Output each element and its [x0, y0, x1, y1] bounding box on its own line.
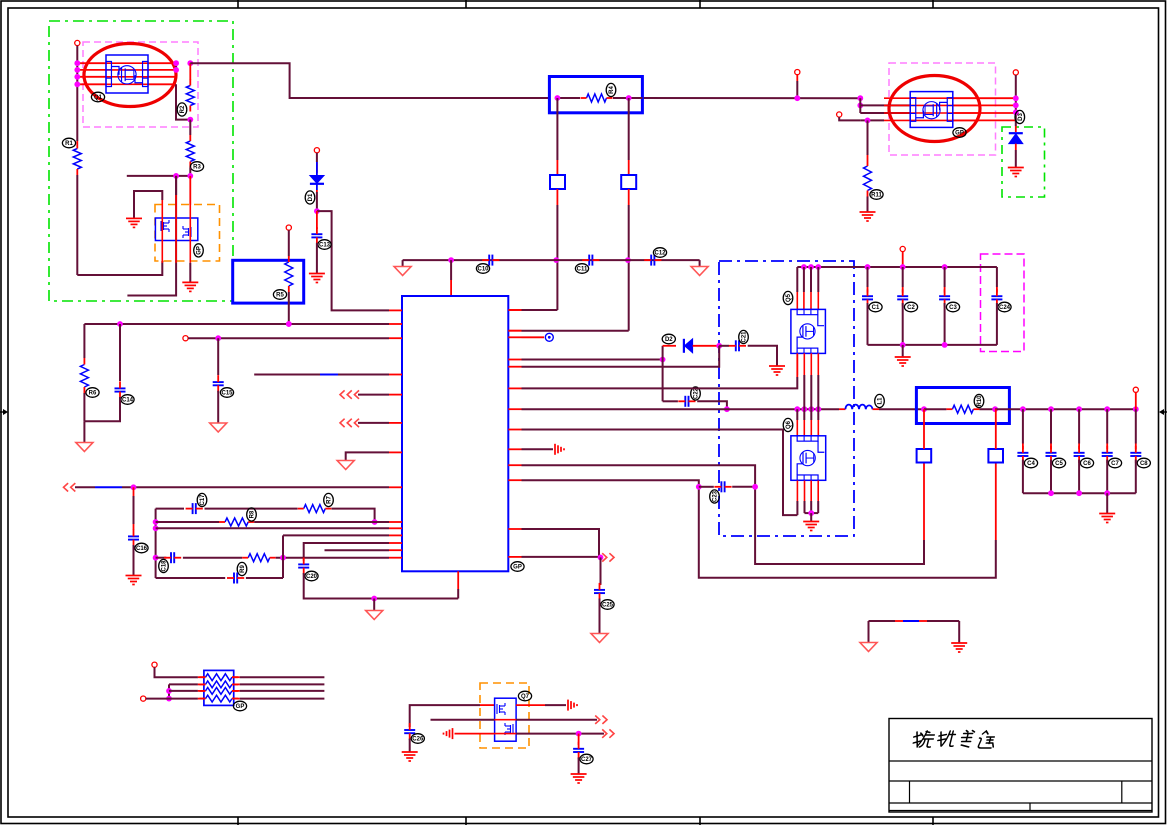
ground G13	[571, 774, 587, 783]
wire output rail dots	[1020, 406, 1026, 412]
IC left pin stubs	[389, 309, 402, 311]
node dots pack	[166, 688, 172, 694]
capacitor C25	[594, 590, 605, 593]
wire C27 branch	[578, 734, 580, 745]
capacitor C5	[1046, 453, 1057, 456]
wire row2 jog	[168, 684, 170, 698]
wire row480 loop	[522, 480, 996, 578]
wire L1 to R10 box	[879, 408, 924, 410]
wire RC row1	[156, 508, 184, 510]
wire row529 jog	[522, 529, 600, 557]
wire output caps bottoms	[1022, 460, 1024, 494]
svg-text:Q7: Q7	[521, 694, 530, 700]
resistor R3	[189, 120, 191, 135]
wire R6 down	[83, 393, 85, 421]
wire Q7 rowB	[431, 719, 495, 721]
wire R6 branch	[83, 324, 85, 358]
svg-text:R9: R9	[240, 565, 246, 573]
port circle P5	[183, 336, 188, 341]
node dot J1 caps row	[553, 257, 559, 263]
wire Q7 rowA	[410, 705, 480, 727]
ground G2	[182, 282, 198, 291]
resistor R11	[864, 166, 872, 191]
wire top rail y267	[797, 266, 997, 268]
wire IC VCC pin top	[450, 260, 452, 280]
capacitor C2	[897, 296, 908, 299]
port circle P7	[141, 696, 146, 701]
capacitor C21	[736, 340, 739, 351]
label C13	[318, 240, 331, 250]
node dot row487	[131, 484, 137, 490]
label RP1 GP	[233, 701, 246, 711]
resistor R4	[557, 97, 580, 99]
wire gnd rail to T6	[373, 599, 375, 611]
wire Q1 right tie	[175, 63, 177, 70]
svg-text:R3: R3	[193, 165, 201, 171]
svg-text:C3: C3	[949, 305, 957, 311]
label C15	[220, 388, 233, 398]
label R2	[177, 103, 187, 116]
svg-text:C11: C11	[577, 267, 588, 273]
diode D1	[310, 176, 324, 184]
wire RC row1 mid	[205, 508, 298, 510]
node dot J2 caps row	[625, 257, 631, 263]
wire net row374 (part blue)	[254, 374, 320, 376]
resistor R5	[288, 255, 290, 258]
wire Q7 rowA right to rgnd	[516, 704, 545, 706]
svg-text:C2: C2	[907, 305, 915, 311]
svg-text:D2: D2	[665, 337, 673, 343]
wire C16 to ground	[133, 545, 135, 575]
label C21	[739, 330, 749, 343]
capacitor C27	[573, 749, 584, 752]
wire row557 to offpage	[522, 556, 600, 558]
wire row394	[358, 394, 389, 396]
node dot row2 join	[372, 519, 378, 525]
wire D2 to box edge	[693, 345, 720, 347]
svg-text:L1: L1	[878, 397, 884, 405]
diode D2	[684, 339, 693, 353]
svg-text:C12: C12	[654, 251, 666, 257]
ground G1	[126, 218, 142, 227]
IC right pin stubs	[508, 309, 521, 311]
port circle P4	[286, 225, 291, 230]
svg-text:C21: C21	[742, 331, 748, 343]
label C1	[869, 302, 882, 312]
wire RC row4 mid	[183, 557, 242, 559]
wire R11 to ground	[867, 197, 869, 212]
wire Q1 left bus	[76, 46, 78, 141]
border center arrow right	[1162, 411, 1167, 413]
wire to ground T1	[83, 421, 85, 442]
label D3	[1015, 110, 1025, 123]
wire Q6 drain columns	[796, 409, 798, 420]
wire row4	[146, 698, 198, 700]
wire gate entry	[839, 117, 860, 120]
port circle P2 top	[795, 70, 800, 75]
wire cap row y260	[403, 259, 700, 261]
svg-text:Q1: Q1	[94, 95, 103, 101]
capacitor C1	[862, 296, 873, 299]
node dots TR right	[1013, 95, 1019, 101]
border zone ticks bottom	[238, 817, 933, 825]
green dashed group box top-left	[49, 21, 233, 301]
magenta dashed box around C24	[981, 254, 1025, 352]
wire R3 to row	[189, 168, 191, 177]
capacitor C24	[991, 296, 1002, 299]
ground G6	[769, 366, 785, 375]
wire Q7 rowC	[455, 733, 495, 735]
ground G10	[951, 643, 967, 652]
capacitor C17	[193, 503, 196, 514]
svg-text:C16: C16	[136, 546, 148, 552]
wire horizontal net stub y176	[127, 175, 191, 177]
ground T6	[366, 611, 383, 620]
ground T4	[394, 267, 411, 276]
wire RC bus vertical	[155, 509, 157, 578]
transistor Q4 package	[910, 92, 953, 128]
label C26	[411, 734, 424, 744]
wire row3	[169, 690, 198, 692]
wire jumper J3 bottom stub	[923, 463, 925, 541]
label C4	[1024, 458, 1037, 468]
wire net row338	[188, 337, 389, 339]
label C27	[580, 754, 593, 764]
wire port stub	[1135, 392, 1137, 409]
wire row359	[522, 359, 663, 361]
capacitor C10	[489, 255, 492, 266]
wire C15 branch	[217, 338, 219, 375]
label R5	[273, 290, 286, 300]
wire C20 down to gnd rail	[304, 573, 459, 599]
capacitor C26	[404, 730, 415, 733]
label C5	[1052, 458, 1065, 468]
label R6	[86, 388, 99, 398]
svg-text:C14: C14	[122, 398, 134, 404]
svg-text:C7: C7	[1111, 461, 1119, 467]
wire D2 row to C21	[719, 345, 729, 347]
capacitor C11	[589, 255, 592, 266]
wire port to row1	[155, 667, 198, 677]
svg-text:C24: C24	[999, 305, 1011, 311]
orange dashed box around Q7 bottom	[480, 683, 529, 748]
dual-FET Q7 symbol	[495, 698, 516, 741]
wire row429 to Q6 gate	[522, 430, 798, 516]
wire row543 to C20	[304, 543, 389, 558]
wire C15 down	[217, 391, 219, 423]
wire column J1	[556, 98, 558, 160]
label C8	[1137, 458, 1150, 468]
label C20	[305, 571, 318, 581]
wire row366	[522, 346, 720, 367]
wire Q5 gate column	[796, 353, 798, 375]
capacitor C13	[311, 234, 322, 237]
wire output bottom rail	[1023, 492, 1136, 494]
resistor R9	[248, 554, 270, 562]
wire rail to ground G8	[902, 345, 904, 357]
svg-text:R6: R6	[89, 391, 97, 397]
label Q4 GP	[953, 128, 966, 138]
wire RC bottom row	[156, 577, 226, 579]
wire Q2 source to ground	[189, 263, 191, 282]
title block frame	[889, 719, 1152, 813]
capacitor C20	[298, 564, 309, 567]
node dots output bottom rail	[1048, 490, 1054, 496]
svg-text:GP: GP	[197, 246, 203, 255]
label C12	[653, 248, 666, 258]
wire TR left tie	[859, 98, 861, 113]
node dot top rail	[794, 95, 800, 101]
pack pin stubs	[198, 676, 206, 678]
label D2	[662, 334, 675, 344]
node dot R10 left	[921, 406, 927, 412]
node dots Q1 right	[173, 60, 179, 66]
wire Q2 mid pin down	[127, 176, 176, 296]
label C2	[904, 302, 917, 312]
IC U1 body	[402, 296, 508, 571]
wire riser to D2	[662, 346, 664, 360]
wire right drop	[958, 621, 960, 643]
dual-FET Q2 symbol	[155, 218, 197, 241]
title block company text 緯創資通	[911, 731, 997, 749]
port circle P10	[837, 112, 842, 117]
label C22	[691, 387, 701, 400]
resistor R1 left	[76, 141, 78, 143]
node dot R5	[286, 321, 292, 327]
capacitor C3	[939, 296, 950, 299]
wire RC row2 to IC	[254, 521, 389, 523]
label L1	[875, 394, 885, 407]
node dot row409 join	[724, 406, 730, 412]
svg-text:C18: C18	[162, 560, 168, 572]
node dot R10 right	[992, 406, 998, 412]
ground T8	[860, 643, 877, 652]
ground G3	[309, 274, 325, 283]
diode D3 TVS	[1015, 126, 1017, 132]
svg-text:C17: C17	[200, 494, 206, 506]
node dots top rail	[801, 264, 807, 270]
svg-text:R10: R10	[977, 395, 983, 407]
nc marker row337	[545, 333, 553, 341]
svg-text:C6: C6	[1083, 461, 1091, 467]
svg-text:C5: C5	[1055, 461, 1063, 467]
capacitor C22	[685, 396, 688, 407]
capacitor C16	[128, 536, 139, 539]
label C11	[575, 264, 588, 274]
wire top rail right of R4 box	[642, 97, 860, 99]
label Q7	[518, 691, 531, 701]
wire Q1 drain to top rail	[190, 63, 549, 98]
label U1 GP	[511, 562, 524, 572]
label C17	[197, 493, 207, 506]
emphasis box R5	[233, 260, 304, 303]
wire TR row2	[860, 104, 910, 106]
wire C26 to ground	[409, 739, 411, 752]
node dots Q1 left bus	[74, 60, 80, 66]
svg-text:R5: R5	[276, 293, 284, 299]
wire TR row3 left	[860, 112, 910, 114]
wire cap bank bottom rail	[868, 344, 997, 346]
jumper J2	[621, 175, 636, 189]
label C10	[476, 264, 489, 274]
wire IC bottom pin	[457, 589, 459, 599]
label R1	[62, 138, 75, 148]
wire J3 top stub	[923, 409, 925, 449]
label R10	[974, 394, 984, 407]
resistor R6	[80, 365, 88, 388]
wire row550 stub	[325, 549, 390, 551]
svg-text:C20: C20	[306, 574, 318, 580]
label R11	[870, 190, 883, 200]
wire C14 branch	[119, 324, 121, 381]
port circle P9	[1133, 387, 1138, 392]
resistor pack RP1	[204, 670, 234, 705]
wire Q6 source columns	[804, 481, 806, 502]
transistor Q6 package	[791, 436, 826, 481]
label C25	[601, 600, 614, 610]
wire C25 branch	[600, 557, 602, 584]
svg-text:C13: C13	[319, 243, 331, 249]
wires pack to right	[240, 676, 325, 678]
wire net row487 (part blue)	[75, 486, 95, 488]
capacitor C23	[721, 481, 724, 492]
wire jumper J4 bottom stub	[995, 463, 997, 541]
wire R10 to cap rail	[995, 408, 1136, 410]
wire column J2	[628, 98, 630, 160]
node dots row324	[117, 321, 123, 327]
capacitor C7	[1102, 453, 1113, 456]
resistor R7	[304, 505, 326, 513]
border zone ticks top	[238, 0, 933, 8]
label Q2 GP	[194, 244, 204, 257]
capacitor C6	[1074, 453, 1085, 456]
ground T7	[591, 634, 608, 643]
offpage chevrons out row557	[602, 553, 614, 561]
wire vertical x283	[282, 535, 284, 578]
label R3	[190, 162, 203, 172]
label D1	[305, 191, 315, 204]
wire RC row4 to IC	[276, 557, 389, 559]
wire cap bank columns	[867, 267, 869, 287]
rotated ground RB2	[568, 700, 577, 711]
offpage chevrons row394	[340, 390, 359, 398]
wire Q1 pin rows	[77, 62, 106, 64]
svg-text:C27: C27	[581, 757, 593, 763]
node dots TR rail	[857, 95, 863, 101]
wire bottom jog to FET	[77, 261, 162, 275]
capacitor C8	[1130, 453, 1141, 456]
ground T3	[337, 461, 354, 470]
label Q1	[91, 92, 104, 102]
wire port to R5	[288, 230, 290, 256]
label C7	[1108, 458, 1121, 468]
wire left drop	[868, 621, 870, 643]
label C24	[998, 302, 1011, 312]
red emphasis ellipse around Q4	[889, 76, 980, 142]
wire D1 junction to C13	[316, 211, 318, 229]
wire C13 to ground	[316, 243, 318, 273]
node dot R2 bottom	[187, 117, 193, 123]
wire C22 to row409	[697, 401, 727, 409]
port circle P1	[75, 40, 80, 45]
label R7	[324, 493, 334, 506]
svg-text:R7: R7	[327, 496, 333, 504]
wire C25 to T7	[599, 599, 601, 634]
capacitor C15	[213, 382, 224, 385]
node dot rowC	[576, 731, 582, 737]
port circle P11	[1013, 70, 1018, 75]
blue dash-dot box around Q5/Q6	[719, 261, 854, 536]
port circle P6	[152, 662, 157, 667]
wire RC row4 cap C18	[156, 557, 167, 559]
node dot Q6 source	[808, 510, 814, 516]
node dot D2 row	[716, 343, 722, 349]
wire C23 row	[699, 486, 714, 488]
node dot row4	[280, 555, 286, 561]
resistor R2 (gate-source)	[189, 63, 191, 80]
node dots y176	[173, 173, 179, 179]
title block row lines	[889, 761, 1152, 811]
jumper J1	[550, 175, 565, 189]
port circle P8	[900, 246, 905, 251]
wire left bus down	[76, 175, 78, 275]
offpage chevrons row487	[64, 483, 76, 491]
wire gate jog Q1	[176, 84, 190, 119]
svg-text:C4: C4	[1027, 461, 1035, 467]
svg-text:R2: R2	[180, 105, 186, 113]
label R4	[606, 83, 616, 96]
ground G8	[895, 357, 911, 366]
wire row452 to ground	[346, 452, 389, 460]
wire row535 to IC	[283, 534, 389, 536]
node dot D1	[314, 208, 320, 214]
offpage chevrons rowC	[602, 729, 614, 737]
svg-text:GP: GP	[955, 131, 964, 137]
port circle P3	[314, 148, 319, 153]
wire Q6 source bus	[805, 512, 819, 514]
wire Q5 source columns	[803, 353, 805, 375]
svg-text:C10: C10	[477, 267, 489, 273]
emphasis box R10	[916, 388, 1009, 424]
ground G12	[402, 752, 418, 761]
svg-text:C1: C1	[872, 305, 880, 311]
label C6	[1080, 458, 1093, 468]
label Q6 gate	[783, 418, 793, 431]
wire D1 to junction	[316, 190, 318, 192]
wire RC bottom row end	[246, 577, 283, 579]
offpage chevrons row422	[340, 419, 359, 427]
svg-text:R11: R11	[871, 193, 882, 199]
svg-text:Q5: Q5	[786, 293, 792, 302]
ground G4	[860, 212, 876, 221]
wire RC row3	[156, 527, 389, 529]
jumper J4	[988, 449, 1003, 463]
wire cap row left end down	[402, 260, 404, 266]
wire J1 to IC pin	[522, 309, 558, 311]
wire C23 to riser	[732, 486, 755, 488]
wire J4 top stub	[995, 409, 997, 449]
wire to ground G9	[1106, 493, 1108, 513]
node dot row359	[660, 357, 666, 363]
wire TR rows red	[884, 97, 979, 99]
capacitor C14	[115, 388, 126, 391]
ground T1	[76, 443, 93, 452]
wire row388 to Q5 gate	[522, 377, 798, 388]
wire J2 down	[628, 189, 630, 205]
node dot row338	[215, 335, 221, 341]
svg-text:GP: GP	[513, 565, 522, 571]
svg-text:R8: R8	[250, 510, 256, 518]
